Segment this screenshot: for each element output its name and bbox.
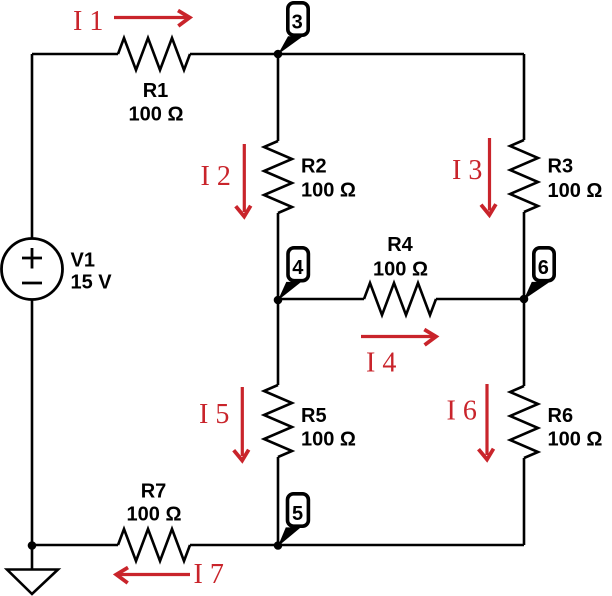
wire R1 to node 3 [190,53,278,56]
svg-text:3: 3 [292,12,303,34]
svg-text:100 Ω: 100 Ω [301,429,356,451]
voltage source V1 [2,239,63,300]
node 6 callout [524,248,554,300]
svg-text:100 Ω: 100 Ω [548,180,603,202]
wire R6 to bottom-right corner [523,458,526,545]
wire left lower segment (V1 to bottom corner) [31,300,34,546]
wire R5 to node 5 [277,457,280,545]
svg-text:6: 6 [538,257,549,279]
svg-text:R3: R3 [548,156,574,178]
node 4 callout [278,248,309,301]
svg-text:V1: V1 [71,250,95,272]
current arrow I5 [234,387,249,461]
svg-text:R2: R2 [301,156,327,178]
current arrow I7 [116,568,190,584]
current arrow I3 [481,138,496,215]
svg-text:5: 5 [292,503,303,525]
resistor R2 [264,141,292,213]
wire bottom-left corner to R7 [32,544,118,547]
current arrow I6 [479,384,494,460]
svg-text:I 2: I 2 [201,161,231,192]
current arrow I1 [114,11,190,27]
wire node 4 to R5 [277,300,280,385]
resistor R3 [510,140,538,212]
svg-text:I 3: I 3 [452,155,482,186]
junction dot at node 3 [274,50,283,59]
svg-text:I 7: I 7 [194,559,224,590]
wire node 5 to bottom-right corner [278,544,524,547]
svg-text:I 4: I 4 [366,348,396,379]
current arrow I4 [361,330,436,346]
svg-text:I 1: I 1 [73,6,103,37]
svg-text:I 6: I 6 [447,396,477,427]
junction dot at bottom-left corner [28,541,37,550]
node 3 callout [278,3,308,55]
svg-text:100 Ω: 100 Ω [301,180,356,202]
svg-text:R5: R5 [301,405,327,427]
svg-text:15 V: 15 V [71,272,113,294]
svg-text:100 Ω: 100 Ω [373,259,428,281]
svg-text:100 Ω: 100 Ω [127,504,182,526]
svg-text:100 Ω: 100 Ω [548,429,603,451]
svg-text:R4: R4 [387,234,413,256]
svg-text:R6: R6 [548,405,574,427]
current arrow I2 [236,144,251,217]
node 5 callout [278,494,309,547]
wire right upper segment (corner to R3) [523,54,526,140]
svg-text:R7: R7 [141,481,167,503]
wire node 6 to R6 [523,299,526,386]
ground [7,545,58,594]
resistor R1 [118,38,190,70]
wire top-left segment (left corner to R1) [32,53,118,56]
resistor R7 [118,529,190,561]
resistor R6 [510,386,538,458]
resistor R5 [264,385,292,457]
wire R3 to node 6 [523,212,526,299]
junction dot at node 4 [274,296,283,305]
wire top-right segment (node 3 to right corner) [278,53,524,56]
svg-text:100 Ω: 100 Ω [129,104,184,126]
wire node 4 to R4 [278,298,364,301]
wire left upper segment (corner to V1) [31,54,34,239]
svg-text:I 5: I 5 [199,399,229,430]
resistor R4 [364,283,436,315]
junction dot at node 6 [520,295,529,304]
svg-text:R1: R1 [143,80,169,102]
junction dot at node 5 [274,541,283,550]
svg-text:4: 4 [292,257,304,279]
wire R7 to node 5 [190,544,278,547]
wire R2 to node 4 [277,213,280,300]
wire R4 to node 6 [436,298,524,301]
wire middle vertical (node 3 to R2) [277,54,280,141]
